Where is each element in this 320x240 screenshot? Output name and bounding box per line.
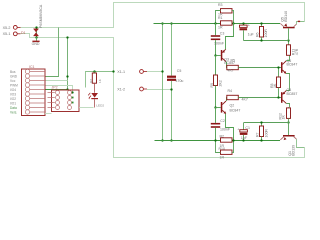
node TVS top bbox=[35, 26, 37, 28]
node R10 left bbox=[214, 139, 216, 141]
svg-text:Vcc: Vcc bbox=[10, 79, 16, 83]
svg-text:C3: C3 bbox=[220, 31, 225, 35]
capacitor C4 1uF (polarized) bbox=[240, 23, 255, 40]
resistor R9 2K2 (vertical) bbox=[210, 56, 223, 108]
resistor R4 4K7 (horizontal) bbox=[227, 89, 248, 101]
wire Q6 collector up to R11 bbox=[286, 55, 289, 60]
node LED feed junctions bbox=[93, 70, 114, 72]
svg-text:1K: 1K bbox=[98, 78, 102, 83]
svg-text:BD139: BD139 bbox=[291, 145, 295, 156]
svg-text:X1-1: X1-1 bbox=[117, 70, 125, 74]
svg-text:X5-1: X5-1 bbox=[3, 32, 11, 36]
node R8 top bbox=[277, 66, 279, 68]
svg-text:C1: C1 bbox=[245, 126, 250, 130]
resistor R3 (1R parallel above) bbox=[218, 3, 232, 17]
node JP2 feed bbox=[71, 91, 73, 93]
node Q2 base tap bbox=[214, 106, 216, 108]
svg-text:Data: Data bbox=[10, 106, 17, 110]
wire main bottom net y=140 bbox=[155, 140, 281, 142]
wire IC1 bottom to JP2 left bbox=[45, 113, 52, 115]
svg-text:1K: 1K bbox=[273, 83, 277, 88]
wire R3 parallel loop bbox=[216, 11, 234, 24]
wire R4 to Q4 base bbox=[238, 97, 281, 99]
svg-text:+: + bbox=[248, 24, 250, 28]
wire IC1 row4 over to JP2 right column bbox=[45, 86, 73, 93]
svg-text:R5: R5 bbox=[231, 59, 236, 63]
svg-text:C5: C5 bbox=[177, 69, 182, 73]
node Q3 base tap bbox=[214, 54, 216, 56]
wire R2 to LED bbox=[94, 83, 96, 93]
svg-text:I/O3: I/O3 bbox=[10, 92, 16, 96]
svg-text:BC847: BC847 bbox=[287, 63, 298, 67]
svg-text:R9: R9 bbox=[210, 83, 214, 88]
svg-text:1R: 1R bbox=[218, 26, 223, 30]
wire IC1 pin row to X5-2 net (x=58) bbox=[45, 28, 59, 77]
wire Q3 collector to R5 bbox=[226, 62, 228, 68]
transistor Q1 BD139 bbox=[280, 123, 296, 156]
node C1 bottom bbox=[242, 139, 244, 141]
svg-text:+: + bbox=[237, 128, 239, 132]
node stub marker top right bbox=[298, 21, 300, 22]
svg-text:I/O2: I/O2 bbox=[10, 97, 16, 101]
node row5 end bbox=[66, 88, 68, 90]
capacitor C3 100nF bbox=[211, 23, 225, 56]
connector JP2 body bbox=[52, 86, 80, 112]
svg-text:BC847: BC847 bbox=[230, 109, 241, 113]
connector pin X5-2 bbox=[3, 26, 21, 30]
resistor R8 bias (vertical between rows) bbox=[270, 68, 281, 98]
resistor R2out (1R inline bottom) bbox=[220, 134, 233, 148]
connector pin X5-1 bbox=[3, 32, 21, 36]
wire vertical x=162 bbox=[162, 23, 164, 140]
wire JP2 row4 to LED cathode bbox=[79, 107, 94, 109]
wire X1-1 to x162 bbox=[147, 71, 162, 73]
svg-text:4K7: 4K7 bbox=[242, 98, 248, 102]
node R7 top bbox=[260, 121, 262, 123]
node R6 top bbox=[260, 22, 262, 24]
connector pin X1-2 bbox=[117, 87, 147, 91]
transistor Q6 BC847 (upper driver) bbox=[281, 59, 297, 74]
wire base row y=122.6 bbox=[244, 122, 289, 124]
wire Q2 emitter to bottom net bbox=[226, 114, 234, 140]
svg-text:PWM: PWM bbox=[10, 83, 18, 87]
svg-text:Vers.: Vers. bbox=[10, 110, 17, 114]
svg-text:Bus: Bus bbox=[10, 70, 16, 74]
svg-text:1R: 1R bbox=[220, 156, 225, 160]
wire vertical x=171.5 upper bbox=[171, 23, 173, 76]
node R1R3 right bbox=[232, 22, 234, 24]
wire Q1 collector to bottom rail bbox=[297, 139, 305, 147]
wire X5-2 net (y=27.5) bbox=[21, 3, 305, 28]
svg-text:BC857: BC857 bbox=[287, 92, 298, 96]
wire LED cathode stub bbox=[94, 99, 96, 107]
resistor R1 (1R inline) bbox=[218, 16, 232, 30]
wire vertical x=171.5 lower bbox=[171, 81, 173, 140]
resistor R10 (1R parallel below) bbox=[219, 147, 233, 160]
svg-text:R7: R7 bbox=[256, 132, 260, 137]
wire LED feed row (y=71.5) bbox=[86, 72, 114, 88]
wire R10 parallel loop bbox=[216, 140, 234, 153]
node Q1 base bbox=[287, 121, 289, 123]
wire X5-1 net (y=37) bbox=[21, 34, 305, 158]
node x67 on wire2 bbox=[66, 36, 68, 38]
svg-text:R3: R3 bbox=[218, 3, 223, 7]
svg-text:1uF: 1uF bbox=[248, 33, 255, 37]
svg-text:2K2: 2K2 bbox=[219, 80, 223, 86]
resistor R11 47R (Q5 base chain) bbox=[287, 40, 299, 55]
capacitor C5 470u bbox=[167, 69, 183, 83]
svg-text:C2: C2 bbox=[220, 119, 225, 123]
TVS suppressor diode D1 bbox=[21, 4, 43, 37]
svg-text:R6: R6 bbox=[256, 32, 260, 37]
wire base row y=40 bbox=[243, 40, 288, 42]
node R8 bottom bbox=[277, 96, 279, 98]
wire X1-2 to x171 bbox=[147, 89, 172, 91]
resistor R5 4K7 (horizontal) bbox=[227, 59, 239, 73]
svg-text:JP2: JP2 bbox=[52, 86, 58, 90]
svg-text:100nF: 100nF bbox=[214, 41, 225, 45]
svg-text:100R: 100R bbox=[264, 129, 268, 138]
node x171.5 joints bbox=[170, 22, 172, 141]
node JP2 right pin taps bbox=[72, 97, 74, 104]
node x162 joints bbox=[161, 22, 163, 141]
node R7 bottom bbox=[260, 139, 262, 141]
svg-text:1R: 1R bbox=[218, 13, 223, 17]
resistor R6 100R (vertical on top net) bbox=[256, 23, 268, 40]
node Q5 base bbox=[287, 39, 289, 41]
svg-text:R2: R2 bbox=[89, 79, 93, 83]
wire Q3 emitter to top net bbox=[226, 23, 234, 49]
node x67 row crossing bbox=[66, 75, 68, 77]
svg-text:D1: D1 bbox=[21, 31, 26, 35]
svg-text:4K7: 4K7 bbox=[228, 68, 234, 72]
node TVS bottom bbox=[35, 36, 37, 38]
resistor R12 1K (Q1 base chain) bbox=[278, 107, 290, 122]
svg-text:X1-2: X1-2 bbox=[117, 87, 125, 91]
capacitor C1 1uF (polarized) bbox=[237, 123, 250, 141]
wire R5 to Q6 base bbox=[238, 67, 281, 69]
node C4 top bbox=[242, 22, 244, 24]
svg-text:GND: GND bbox=[10, 74, 18, 78]
svg-text:I/O1: I/O1 bbox=[10, 101, 16, 105]
wire IC1 row5 strong bbox=[45, 89, 68, 91]
svg-text:X5-2: X5-2 bbox=[3, 26, 11, 30]
wire main top net y=23 bbox=[154, 23, 281, 25]
svg-text:BD140: BD140 bbox=[284, 11, 288, 22]
wire Q5 collector to top rail bbox=[297, 22, 305, 25]
svg-text:P6SMB6V8CA: P6SMB6V8CA bbox=[39, 4, 43, 28]
svg-text:LED2: LED2 bbox=[96, 104, 104, 108]
resistor R7 100R (vertical on bottom net) bbox=[256, 123, 269, 140]
node R1R3 left bbox=[214, 22, 216, 24]
JP2 pins bbox=[48, 91, 72, 110]
node R6 bottom bbox=[260, 39, 262, 41]
svg-text:1uF: 1uF bbox=[241, 136, 248, 140]
connector IC1 body bbox=[22, 65, 46, 115]
svg-text:GND: GND bbox=[32, 42, 40, 46]
transistor Q4 BC857 (lower driver) bbox=[281, 88, 297, 103]
wire Q2 collector to R4 bbox=[226, 98, 228, 102]
wire Q4 collector down to node bbox=[286, 104, 289, 108]
svg-text:470u: 470u bbox=[176, 79, 184, 83]
svg-text:47R: 47R bbox=[295, 48, 299, 55]
transistor Q5 BD140 bbox=[280, 11, 296, 40]
svg-text:100R: 100R bbox=[264, 29, 268, 38]
wire IC1 pin row to X5-1 net (x=67.5) bbox=[67, 38, 69, 90]
svg-text:I/O4: I/O4 bbox=[10, 88, 16, 92]
svg-text:1K: 1K bbox=[282, 115, 286, 120]
connector pin X1-1 bbox=[117, 70, 147, 74]
IC1 pins and labels bbox=[10, 69, 45, 114]
ground GND below TVS bbox=[32, 37, 40, 46]
resistor R2 (LED series 1K) bbox=[89, 72, 102, 84]
svg-text:Q2: Q2 bbox=[230, 104, 235, 108]
capacitor C2 100nF bbox=[211, 107, 231, 140]
wire Q6 emitter to Q4 emitter bbox=[286, 74, 290, 91]
LED LED2 bbox=[88, 93, 104, 108]
node R10 right bbox=[232, 139, 234, 141]
transistor Q2 BC847 bbox=[216, 101, 241, 114]
wire IC1 row3 to x67 bbox=[45, 80, 68, 82]
svg-text:R4: R4 bbox=[228, 89, 233, 93]
transistor Q3 BC857 bbox=[216, 49, 236, 65]
